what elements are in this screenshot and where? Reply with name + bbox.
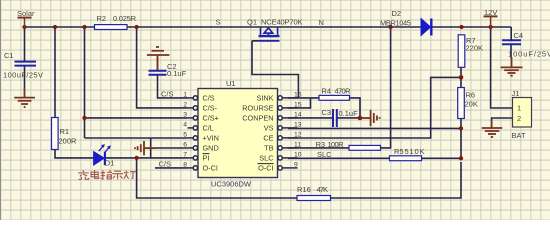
svg-text:8: 8	[183, 161, 187, 168]
junction Solar port / C1 / rail	[22, 25, 26, 29]
junction R6 bottom / VS wire	[459, 126, 463, 130]
wire LED cathode to pin7	[106, 157, 188, 159]
svg-text:R5: R5	[394, 147, 404, 156]
svg-text:D2: D2	[392, 9, 402, 18]
svg-text:10: 10	[294, 151, 302, 158]
wire pin11 to R3	[288, 147, 349, 149]
svg-text:200R: 200R	[59, 136, 78, 145]
LED D1	[94, 144, 115, 168]
resistor R7	[458, 35, 483, 68]
ground below C4	[501, 57, 523, 76]
svg-text:R4: R4	[322, 86, 332, 95]
svg-text:NCE40P70K: NCE40P70K	[261, 17, 303, 26]
capacitor C4	[502, 31, 550, 59]
svg-text:BAT: BAT	[512, 131, 526, 140]
LED arrows	[99, 144, 111, 153]
wire R1 bottom to LED anode	[55, 150, 94, 158]
svg-text:C1: C1	[4, 51, 14, 60]
resistor R1	[52, 118, 78, 150]
svg-text:SLC: SLC	[259, 153, 273, 162]
resistor R3	[316, 140, 381, 150]
svg-text:C/S+: C/S+	[203, 113, 219, 122]
wire pin8 net stub	[155, 167, 188, 169]
svg-text:VS: VS	[264, 123, 274, 132]
capacitor C2	[149, 62, 187, 78]
svg-text:0.1uF: 0.1uF	[339, 109, 359, 118]
wire pin16 to R4	[288, 97, 319, 99]
overline O-CI right	[258, 163, 274, 165]
svg-text:13: 13	[294, 121, 302, 128]
svg-text:20K: 20K	[465, 100, 478, 109]
wire pin12 up and over to R7 junction	[288, 77, 461, 138]
svg-text:9: 9	[294, 161, 298, 168]
resistor R16	[297, 185, 331, 201]
svg-text:6: 6	[183, 141, 187, 148]
char 电	[91, 170, 99, 178]
svg-text:R16: R16	[297, 185, 311, 194]
ground above C2 (inverted)	[147, 47, 170, 70]
junction rail / pin3-pin5 branch	[82, 25, 86, 29]
svg-text:C3: C3	[322, 108, 332, 117]
resistor R5	[390, 147, 425, 161]
svg-text:0.1uF: 0.1uF	[167, 69, 187, 78]
capacitor C3	[322, 108, 359, 127]
svg-text:C/S: C/S	[159, 159, 172, 168]
wire C3 right to junction	[338, 117, 361, 119]
svg-text:SINK: SINK	[256, 93, 273, 102]
wire R3 right up to rail	[381, 27, 391, 148]
svg-text:3: 3	[183, 111, 187, 118]
wire C2 top to ground stem	[157, 58, 159, 71]
svg-text:O-CI: O-CI	[203, 163, 218, 172]
wire J1 pin1 up to rail	[491, 27, 513, 108]
svg-text:11: 11	[294, 141, 301, 148]
char 示	[112, 171, 123, 179]
svg-text:R2: R2	[97, 14, 107, 23]
svg-text:C/S: C/S	[203, 93, 215, 102]
wire R6 vertical links	[460, 68, 462, 159]
wire C1 top	[24, 27, 26, 61]
svg-text:GND: GND	[203, 143, 219, 152]
svg-text:7: 7	[183, 151, 187, 158]
svg-text:12: 12	[294, 131, 302, 138]
wire vertical pin5-row to pin7-row	[150, 138, 152, 158]
junction pin3 branch	[82, 116, 86, 120]
svg-text:16: 16	[294, 91, 302, 98]
resistor R6	[458, 88, 478, 119]
svg-text:C/L: C/L	[203, 123, 214, 132]
wire rail to R1	[54, 27, 56, 118]
svg-text:CONPEN: CONPEN	[242, 113, 273, 122]
ground below J1 pin2	[482, 120, 503, 137]
junction rail / R2 right / pin2 drop	[134, 25, 138, 29]
label charge indicator (chinese: 充电指示灯 drawn as paths)	[78, 170, 136, 179]
port Solar	[17, 9, 35, 27]
junction C3 / ground / R4 drop	[358, 116, 363, 121]
wire junction down to bottom rail and R16 run	[137, 158, 461, 198]
overline PI	[203, 153, 210, 155]
wire R2 right junction down to pin2	[137, 27, 188, 108]
IC U1 UC3906DW	[198, 79, 278, 189]
junction R7 bottom / R6 top / CE wire	[459, 75, 464, 80]
svg-text:R6: R6	[466, 91, 476, 100]
IC pin names right	[242, 93, 273, 172]
svg-text:Q1: Q1	[247, 17, 257, 26]
diode D2	[380, 9, 431, 36]
port 12V	[484, 8, 498, 27]
svg-text:12V: 12V	[484, 8, 497, 17]
svg-text:C/S: C/S	[161, 90, 174, 99]
wire pin10 to R5	[288, 157, 390, 159]
svg-text:PI: PI	[203, 153, 210, 162]
wire C4 drop	[510, 27, 512, 58]
IC right pins	[278, 96, 298, 170]
junction LED cathode / pin7 / bottom run	[134, 156, 138, 160]
svg-text:R3: R3	[316, 140, 326, 149]
wire rail down pin3 pin5 branch	[85, 27, 188, 138]
svg-text:1: 1	[183, 91, 187, 98]
svg-text:TB: TB	[264, 143, 273, 152]
svg-text:C/S-: C/S-	[203, 103, 218, 112]
svg-text:100uF/25V: 100uF/25V	[3, 71, 43, 80]
svg-text:100R: 100R	[328, 140, 345, 149]
svg-text:Solar: Solar	[17, 9, 35, 18]
svg-text:5: 5	[183, 131, 187, 138]
junction rail / 12V port / J1 pin1 drop	[488, 25, 492, 29]
junction rail / R7 top	[459, 25, 463, 29]
svg-text:1: 1	[517, 104, 521, 113]
svg-text:15: 15	[294, 101, 302, 108]
wire pin14 to C3	[288, 117, 333, 119]
wire J1 pin2 to ground	[492, 118, 513, 121]
IC left pins	[188, 96, 198, 170]
svg-text:220K: 220K	[466, 44, 484, 53]
svg-text:C4: C4	[514, 31, 524, 40]
svg-text:CE: CE	[263, 133, 273, 142]
svg-text:4: 4	[183, 121, 187, 128]
resistor R4	[319, 86, 351, 100]
svg-text:47K: 47K	[317, 185, 329, 194]
capacitor C1	[3, 51, 43, 80]
svg-text:100uF/25V: 100uF/25V	[508, 50, 550, 59]
svg-text:+VIN: +VIN	[203, 133, 219, 142]
svg-text:2: 2	[183, 101, 187, 108]
svg-text:D1: D1	[105, 159, 115, 168]
junction R5 right / vertical	[459, 156, 463, 160]
wire R5 right to junction	[422, 157, 462, 159]
IC pin numbers	[183, 91, 187, 168]
wire top rail Solar to C4 corner	[25, 26, 512, 28]
svg-text:U1: U1	[226, 79, 236, 88]
wire R4 right down to C3 junction	[350, 98, 361, 118]
svg-text:470R: 470R	[335, 86, 352, 95]
ground left of pin6 (rotated)	[135, 141, 156, 155]
svg-text:SLC: SLC	[317, 150, 332, 159]
resistor R2	[95, 14, 137, 29]
ground right of C3 (rotated)	[360, 110, 380, 126]
svg-text:O-CI: O-CI	[258, 163, 273, 172]
wire pin6 GND stub	[155, 147, 188, 149]
svg-text:ROURSE: ROURSE	[242, 103, 273, 112]
svg-text:N: N	[319, 18, 324, 27]
svg-text:0.025R: 0.025R	[113, 14, 137, 23]
wire pin13 to R6 bottom junction	[288, 127, 461, 129]
junction rail / R1	[53, 25, 57, 29]
svg-text:S: S	[216, 18, 221, 27]
svg-text:14: 14	[294, 111, 302, 118]
char 指	[101, 170, 112, 179]
connector J1	[512, 89, 532, 140]
svg-text:MBR1045: MBR1045	[380, 19, 411, 28]
transistor Q1 NCE40P70K (P-MOSFET)	[252, 27, 280, 41]
junction rail / R3 vertical	[388, 25, 392, 29]
char 灯	[124, 171, 136, 179]
svg-text:R1: R1	[60, 127, 70, 136]
svg-text:510K: 510K	[405, 147, 425, 156]
wire C1 bottom to ground	[24, 66, 26, 89]
wire Q1 gate to pin16	[252, 41, 298, 98]
wire pin15 up to pin16 row	[288, 98, 311, 108]
wire C2 to pin1	[158, 76, 188, 98]
svg-text:UC3906DW: UC3906DW	[211, 180, 252, 189]
IC pin names left	[203, 93, 219, 172]
svg-text:2: 2	[517, 114, 521, 123]
svg-text:J1: J1	[512, 89, 520, 98]
ground below C1	[14, 88, 35, 107]
char 充	[78, 170, 89, 179]
